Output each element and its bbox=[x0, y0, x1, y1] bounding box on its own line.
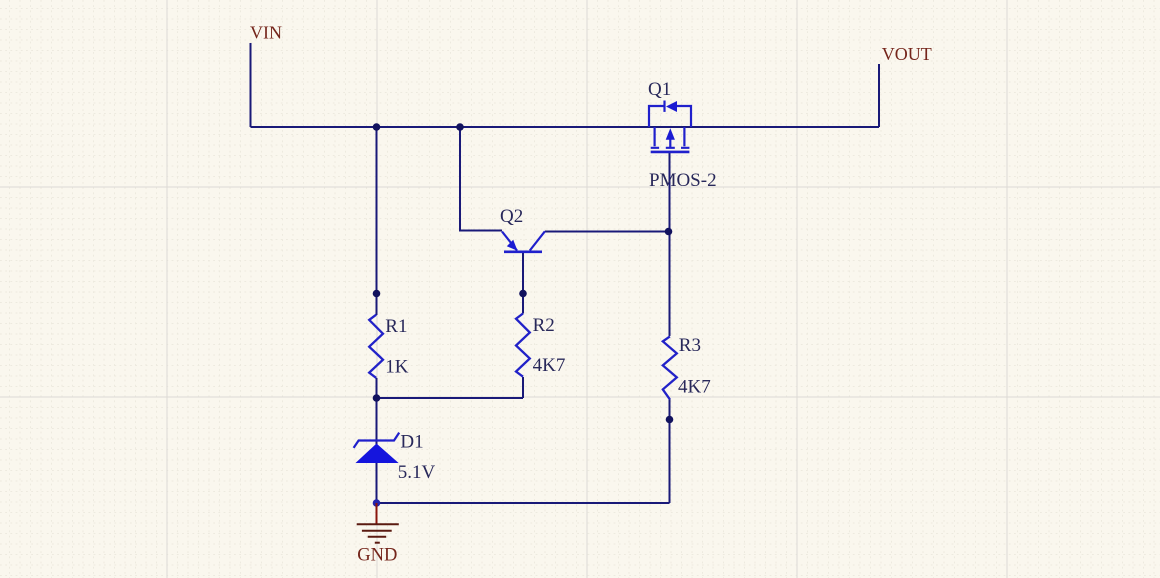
svg-text:PMOS-2: PMOS-2 bbox=[649, 170, 717, 191]
transistor Q1 PMOS body bbox=[649, 101, 691, 152]
Q2 emitter arrow bbox=[507, 240, 518, 251]
svg-text:1K: 1K bbox=[385, 357, 409, 378]
ground symbol bbox=[357, 524, 399, 543]
junction D1 bottom / GND bbox=[373, 499, 381, 507]
svg-text:VOUT: VOUT bbox=[882, 44, 932, 64]
wire main rail y=127 bbox=[251, 126, 880, 128]
wire Q2 collector to node bbox=[545, 231, 669, 233]
svg-text:4K7: 4K7 bbox=[533, 355, 566, 376]
resistor R1 bbox=[369, 315, 383, 378]
svg-text:R1: R1 bbox=[385, 316, 407, 337]
zener diode D1 bbox=[356, 444, 399, 464]
wire Q1 gate down to node bbox=[669, 152, 671, 232]
wire Q2 emitter branch bbox=[460, 127, 502, 231]
wire bottom rail y=503 bbox=[377, 502, 670, 504]
svg-text:GND: GND bbox=[357, 546, 397, 566]
transistor Q2 PNP bbox=[502, 231, 545, 252]
svg-text:Q2: Q2 bbox=[500, 206, 523, 227]
wire R1-R2 bottom link bbox=[377, 397, 524, 399]
svg-text:D1: D1 bbox=[400, 431, 423, 452]
svg-text:4K7: 4K7 bbox=[678, 376, 711, 397]
Q1 body diode triangle bbox=[666, 101, 677, 112]
svg-text:5.1V: 5.1V bbox=[398, 462, 436, 483]
wire VIN lead bbox=[250, 43, 252, 127]
svg-text:R3: R3 bbox=[679, 335, 701, 356]
resistor R3 bbox=[663, 336, 677, 399]
wire R1 branch bbox=[376, 127, 378, 315]
wire Q2 base lead bbox=[522, 253, 524, 314]
Q1 arrow bbox=[666, 128, 675, 139]
wire R2 bottom lead bbox=[522, 377, 524, 398]
resistor R2 bbox=[516, 314, 530, 377]
svg-text:VIN: VIN bbox=[250, 23, 282, 43]
wire VOUT lead bbox=[878, 64, 880, 127]
junction R1 bottom bbox=[373, 394, 381, 402]
junction R3 bottom pin bbox=[666, 416, 674, 424]
svg-text:R2: R2 bbox=[533, 315, 555, 336]
ground lead (maroon) bbox=[376, 503, 378, 524]
wire node to R3 bbox=[669, 232, 671, 337]
svg-text:Q1: Q1 bbox=[648, 79, 671, 100]
junction main-R1 bbox=[373, 123, 381, 131]
wire R3 bottom lead bbox=[669, 399, 671, 503]
junction Q2 collector node bbox=[665, 228, 673, 236]
junction R2 top pin bbox=[519, 290, 527, 298]
junction R1 top pin bbox=[373, 290, 381, 298]
wire R1 to D1 bbox=[376, 378, 378, 503]
junction main-Q2 bbox=[456, 123, 464, 131]
